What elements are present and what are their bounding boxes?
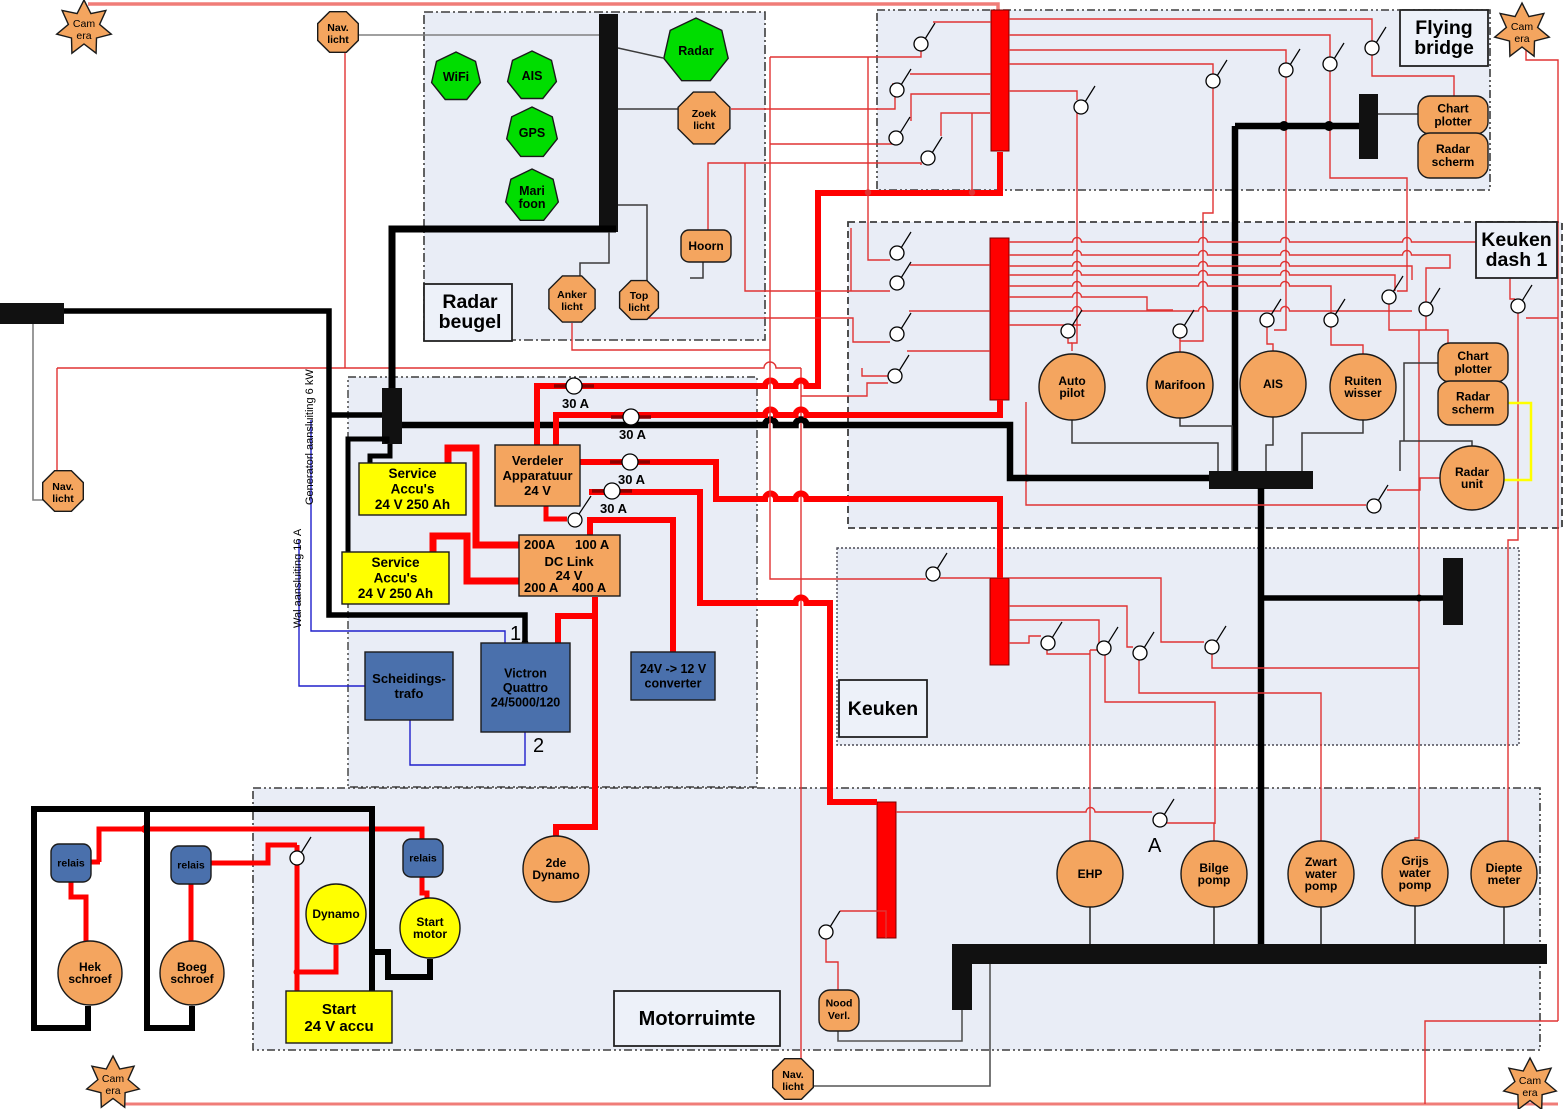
svg-text:licht: licht [561,301,583,313]
node bottom ground bus [952,944,1547,964]
wire red bilge riser [1105,655,1215,824]
wire red kdash bar left taps [907,265,990,351]
2de dynamo [523,836,589,902]
fuse 30A f1 [554,378,594,411]
wire red fb sw riser to ruiten area [1330,70,1407,291]
wire gray nood verl to bus [838,1010,962,1041]
node main black block [382,388,402,444]
wire gray left bar to navlicht [33,322,46,500]
ehp pump [1057,841,1123,907]
camera top left [57,0,112,53]
wire red kdash bottom row to radar unit [1026,402,1440,505]
top licht [620,281,659,320]
svg-text:Accu's: Accu's [374,571,418,586]
svg-text:GPS: GPS [519,126,545,140]
switch fb r2 [1279,49,1300,77]
svg-text:DC Link: DC Link [544,554,594,569]
wire red verdeler fuse3 to keuken bar [580,462,1000,578]
switch keuken in [926,553,947,581]
svg-text:Cam: Cam [1511,21,1533,33]
radar unit [1440,446,1504,510]
wire black branch to block [329,412,382,418]
wire red verdeler fuse2 to kdash bar [556,400,1000,446]
svg-text:1: 1 [510,623,521,645]
wire red bottom right link [1425,1021,1558,1104]
wire red switch A line [896,808,1214,843]
antenna gps [507,107,558,156]
wire dark mast to top licht [618,205,647,281]
service accu 2 [342,552,449,604]
wire black pump drops [1090,906,1504,944]
wire red keuken bar taps [1009,578,1204,650]
node bus bar keuken dash 1 [1209,471,1313,489]
antenna marifoon [506,169,559,220]
wire red keuken sw1 to ehp riser [1047,650,1090,654]
switch fb r4 [1365,27,1386,55]
wire black flying bridge vertical [1232,126,1239,471]
scheidingstrafo [365,652,453,720]
wire red verdeler to switch dc [546,505,567,519]
svg-text:licht: licht [327,34,349,46]
nav licht top [318,12,359,53]
wire red relais2 to boeg schroef [189,882,194,942]
wire red accu1 to dclink [448,448,519,545]
antenna ais [508,51,557,99]
wire red relais1 to hek schroef [71,882,86,942]
svg-text:Start: Start [322,1001,356,1018]
svg-text:relais: relais [177,860,205,872]
wire dark ruiten to bus [1302,420,1363,471]
svg-text:A: A [1148,835,1162,857]
wire red dclink 100A to converter [590,520,673,652]
fuse 30A f2 [611,409,651,442]
victron quattro [481,643,570,732]
switch fb r1 [1206,60,1227,88]
wire blue trafo to victron [410,720,525,765]
wire red keuken sw4 to grijs pomp [1212,654,1419,841]
switch keuken 3 [1133,632,1154,660]
wire red ais switch to device [1267,327,1273,351]
svg-text:Cam: Cam [1519,1075,1541,1087]
wire red fb bar right taps [1009,19,1372,100]
svg-text:plotter: plotter [1434,114,1472,128]
svg-text:licht: licht [628,302,650,314]
wire red kdash bar right taps [1009,238,1515,326]
wire red marifoon switch to device [1179,337,1181,341]
radar scherm kdash [1438,381,1508,425]
svg-text:foon: foon [518,197,545,211]
service accu 1 [359,463,466,515]
switch autopilot [1061,310,1082,338]
svg-text:converter: converter [645,677,702,691]
switch fb3 [889,117,910,145]
bus bar red keuken [990,578,1009,665]
switch fb4 [921,137,942,165]
wire red verdeler fuse1 to flying bridge bar [537,152,1000,446]
relais 1 [51,844,91,882]
svg-text:Hoorn: Hoorn [688,239,723,253]
svg-text:Radar: Radar [1456,389,1490,403]
wire black main horizontal bus [402,420,1209,479]
svg-text:Motorruimte: Motorruimte [639,1008,756,1030]
switch fb1 [914,23,935,51]
wire dark mast to zoeklicht [618,108,678,110]
wire red keuken sw3 to zwart pomp [1139,659,1321,841]
svg-text:Keuken: Keuken [848,698,918,720]
svg-text:scherm: scherm [1432,155,1475,169]
svg-text:24V -> 12 V: 24V -> 12 V [640,662,707,676]
wire red dclink 400A to 2de dynamo [556,597,595,838]
svg-text:Accu's: Accu's [391,482,435,497]
dynamo [306,884,366,944]
wire red relais2 to start line [211,845,297,863]
svg-text:Chart: Chart [1437,101,1468,115]
wire blue wal aansluiting [299,540,365,686]
svg-text:30 A: 30 A [562,396,590,411]
zoek licht [678,92,730,144]
left deck bar [0,303,64,324]
svg-text:24 V 250 Ah: 24 V 250 Ah [375,497,450,512]
switch dc link [568,496,591,527]
svg-text:scherm: scherm [1452,402,1495,416]
marifoon unit [1147,352,1213,418]
svg-text:24 V 250 Ah: 24 V 250 Ah [358,586,433,601]
node black bar flying bridge [1359,94,1378,159]
chart plotter kdash [1438,343,1508,382]
svg-text:24 V: 24 V [524,483,551,498]
dc link [519,535,620,596]
wire dark ais to bus [1266,417,1273,471]
svg-text:30 A: 30 A [600,501,628,516]
switch start accu [290,837,311,865]
wire red fb mid switch riser [1072,113,1077,351]
verdeler apparatuur [495,445,580,506]
wire red sw to diepte meter riser [1508,313,1518,841]
wire thin red flying bridge bar left taps [910,22,991,192]
svg-text:Marifoon: Marifoon [1155,378,1206,392]
wire black keuken horizontal [1261,595,1443,601]
fuse 30A f4 [592,483,632,516]
wire red autopilot switch to device [1068,338,1072,343]
svg-text:Radar: Radar [1436,142,1470,156]
wire red relais1 stub [91,860,100,865]
start motor [400,898,460,958]
svg-text:Nood: Nood [826,997,853,1009]
wire camera loop bottom [120,1103,1558,1106]
antenna radar [664,18,728,81]
svg-text:Wal aansluiting 16 A: Wal aansluiting 16 A [292,528,304,628]
wire black boeg schroef loop [147,809,192,1028]
label motorruimte [614,991,780,1046]
region Motorruimte [253,788,1540,1050]
svg-text:30 A: 30 A [618,472,646,487]
wire red sw to chartplotter2 [1389,304,1448,668]
svg-text:Service: Service [371,555,420,570]
svg-text:pomp: pomp [1198,873,1231,887]
camera top right [1495,3,1550,56]
diepte meter [1471,841,1537,907]
svg-text:WiFi: WiFi [443,70,469,84]
svg-text:licht: licht [782,1081,804,1093]
relais 3 [403,839,443,877]
svg-text:pomp: pomp [1399,878,1432,892]
wire red fb sw riser to marifoon switch [1180,87,1213,352]
node black dots [1279,121,1289,131]
region Flying bridge [877,10,1490,190]
node red junction flying bridge feed [865,189,871,195]
wire red anker licht to riser [572,323,770,350]
grijs water pomp [1382,840,1448,906]
auto pilot [1039,354,1105,420]
node red junctions [141,825,149,833]
switch kd l4 [888,355,909,383]
nood verlichting [819,990,859,1031]
wire red ruiten switch to device [1331,327,1363,354]
svg-text:schroef: schroef [68,972,112,986]
switch nood verl [819,911,840,939]
switch kd r2 [1419,288,1440,316]
wire red top licht to kdash switch [648,318,890,342]
wire dark hoorn bottom [690,262,703,278]
wire red fuse4 to motorruimte bar [589,492,877,802]
svg-text:Dynamo: Dynamo [312,907,359,921]
wire red zoek licht [731,57,895,260]
svg-text:Radar: Radar [442,291,498,313]
svg-text:Nav.: Nav. [782,1069,803,1081]
svg-text:Top: Top [630,290,648,302]
svg-text:unit: unit [1461,477,1483,491]
wire red fb sw to chart plotter [1372,54,1454,96]
radar scherm FB [1418,133,1488,178]
relais 2 [171,846,211,884]
camera bottom left [87,1056,140,1107]
switch fb2 [890,69,911,97]
svg-text:Nav.: Nav. [327,22,348,34]
ais unit [1240,351,1306,417]
wire black block to accu1 [370,444,390,463]
switch ruiten [1324,299,1345,327]
nav licht left [43,471,84,512]
switch kd r1 [1382,276,1403,304]
svg-text:AIS: AIS [522,69,543,83]
wire thin red left riser feeds [770,51,921,145]
svg-text:100 A: 100 A [575,537,610,552]
bus bar red flying bridge [991,10,1009,151]
wire thin red riser lights [770,57,990,579]
nav licht bottom [773,1059,814,1100]
svg-text:Cam: Cam [73,18,95,30]
svg-text:Keuken: Keuken [1481,229,1551,251]
switch keuken 2 [1097,627,1118,655]
svg-text:EHP: EHP [1078,867,1103,881]
wire red relais3 to start motor [422,877,427,899]
label keuken dash 1 [1476,222,1557,278]
wire blue generator [311,420,505,643]
svg-text:Verdeler: Verdeler [512,453,563,468]
svg-text:meter: meter [1488,873,1521,887]
svg-text:era: era [1514,33,1529,45]
wire black block to accu2 [348,439,387,552]
svg-text:licht: licht [693,120,715,132]
svg-text:pilot: pilot [1059,386,1084,400]
svg-text:Generatorl aansluiting 6 kW: Generatorl aansluiting 6 kW [304,369,316,505]
wire black keuken vertical [1258,488,1265,944]
wire gray navlicht bottom to bus [813,964,990,1086]
wire nav-licht net [57,52,801,1062]
wire yellow radar scherm to radar unit [1504,403,1531,480]
wire dark mast to radar [618,48,663,58]
wire red start battery bus [99,829,422,862]
wire red fb sw riser to ais switch [1274,76,1286,330]
switch fb r3 [1323,43,1344,71]
svg-text:200 A: 200 A [524,580,559,595]
svg-text:AIS: AIS [1263,377,1283,391]
svg-text:pomp: pomp [1305,879,1338,893]
region Keuken [837,548,1519,745]
label radar beugel [424,284,512,341]
wire red hoorn top to fb switch [708,163,921,233]
bus bar red keuken dash 1 [990,238,1009,400]
antenna wifi [432,52,481,100]
wire black mast run [392,229,616,388]
wire red navline to kdash switch4 [862,368,888,376]
region Radar beugel [424,12,765,340]
svg-text:motor: motor [413,927,447,941]
wire red hoorn branch to kdash switch [745,163,890,291]
svg-text:bridge: bridge [1414,37,1474,59]
svg-text:trafo: trafo [395,686,424,701]
switch ais [1260,299,1281,327]
svg-text:400 A: 400 A [572,580,607,595]
svg-text:licht: licht [52,493,74,505]
switch keuken 4 [1205,626,1226,654]
anker licht [549,276,595,322]
svg-text:era: era [105,1085,120,1097]
wire camera loop right top [1526,42,1558,1021]
wire black hek schroef loop [34,809,372,1028]
svg-text:Verl.: Verl. [828,1010,850,1022]
wire red dynamo to start riser [297,945,336,972]
wire black start motor branch [372,952,430,977]
svg-text:30 A: 30 A [619,427,647,442]
svg-text:Dynamo: Dynamo [532,868,579,882]
svg-text:Cam: Cam [102,1073,124,1085]
wire red accu2 to dclink [433,536,519,581]
wire red dclink tap to victron [558,616,595,643]
label keuken [839,680,927,737]
svg-text:Mari: Mari [519,184,545,198]
switch kd l2 [890,262,911,290]
svg-text:Quattro: Quattro [503,681,549,695]
svg-text:Anker: Anker [557,289,587,301]
svg-text:relais: relais [409,853,437,865]
svg-text:era: era [1522,1087,1537,1099]
wire dark radarscherm2 to bus [1404,363,1438,441]
svg-text:wisser: wisser [1343,386,1382,400]
wire dark radar unit to bus [1400,441,1472,471]
switch radar unit [1367,485,1388,513]
svg-text:Victron: Victron [504,666,547,680]
wire dark autopilot to bus [1072,420,1218,471]
svg-text:Flying: Flying [1415,17,1472,39]
converter 24 12 [631,652,715,700]
svg-text:Zoek: Zoek [692,108,717,120]
svg-text:Nav.: Nav. [52,481,73,493]
svg-text:dash 1: dash 1 [1486,249,1548,271]
svg-text:era: era [76,30,91,42]
fuse 30A f3 [610,454,650,487]
region middle (accu/victron) [348,377,757,787]
switch A [1153,799,1174,827]
node black bar keuken [1443,558,1463,625]
svg-text:Service: Service [388,466,437,481]
hek schroef [58,941,122,1005]
wire black flying bridge horizontal [1235,123,1359,130]
wire gray navlicht top to mast [357,34,599,36]
wire red ehp riser [1089,650,1091,841]
svg-text:24 V accu: 24 V accu [304,1018,373,1035]
wire dark marifoon to bus [1180,418,1232,471]
svg-text:beugel: beugel [439,311,502,333]
wire red start accu riser [295,845,300,991]
switch kd l3 [890,313,911,341]
svg-text:Chart: Chart [1457,349,1488,363]
wire red nood verl [826,911,886,991]
wire dark mast to anker licht [580,232,609,276]
region Keuken dash 1 [848,222,1562,528]
start accu [286,991,392,1043]
svg-text:24/5000/120: 24/5000/120 [491,695,561,709]
chart plotter FB [1418,96,1488,134]
svg-text:plotter: plotter [1454,362,1492,376]
bilge pomp [1181,841,1247,907]
wire dark fb bar to chart plotter [1378,113,1418,115]
svg-text:Scheidings-: Scheidings- [372,671,446,686]
switch keuken 1 [1041,622,1062,650]
svg-text:2: 2 [533,735,544,757]
wire black deck run [64,311,525,643]
camera bottom right [1504,1058,1557,1109]
wire camera loop top [88,4,998,10]
svg-text:schroef: schroef [170,972,214,986]
boeg schroef [160,941,224,1005]
wire red kdash left switch feeds [801,383,888,396]
bus bar red motorruimte [877,802,896,938]
switch fb mid [1074,86,1095,114]
hoorn [681,230,731,262]
zwart water pomp [1288,841,1354,907]
switch kd r3 [1511,285,1532,313]
ruiten wisser [1330,354,1396,420]
switch kd l1 [890,232,911,260]
svg-text:Apparatuur: Apparatuur [502,468,572,483]
switch marifoon [1173,310,1194,338]
label flying bridge [1400,10,1488,66]
svg-text:Radar: Radar [678,44,714,58]
radar mast bar [599,14,618,232]
svg-text:200A: 200A [524,537,556,552]
svg-text:relais: relais [57,858,85,870]
